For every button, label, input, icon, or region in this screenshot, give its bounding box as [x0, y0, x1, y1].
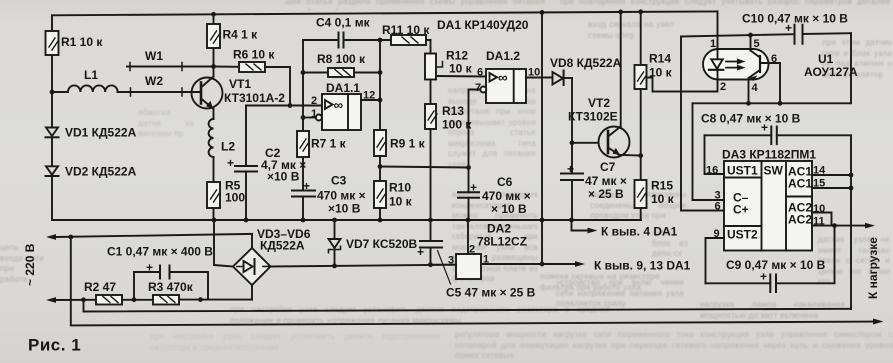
resistor R11	[380, 23, 431, 45]
svg-text:VT1: VT1	[229, 77, 251, 91]
svg-text:6: 6	[715, 201, 721, 213]
svg-text:6: 6	[771, 53, 777, 65]
svg-text:C4 0,1 мк: C4 0,1 мк	[316, 16, 371, 30]
svg-text:470 мк ×: 470 мк ×	[482, 189, 531, 203]
svg-text:12: 12	[363, 90, 375, 102]
svg-text:C3: C3	[331, 174, 347, 188]
wire emitter line to DA1.1 pin2	[246, 103, 322, 108]
wire line1 AC to right column	[84, 300, 852, 312]
svg-text:Рис. 1: Рис. 1	[28, 336, 81, 355]
op-amp DA1.1	[303, 81, 380, 130]
resistor R13	[425, 80, 472, 221]
svg-text:10: 10	[528, 67, 540, 79]
svg-text:5: 5	[754, 38, 760, 50]
svg-text:UST2: UST2	[727, 228, 758, 242]
bleed-through background texture	[285, 0, 545, 10]
svg-text:+: +	[146, 261, 153, 275]
svg-text:R6 10 к: R6 10 к	[233, 48, 275, 62]
svg-text:10 к: 10 к	[389, 195, 413, 209]
resistor R2	[84, 280, 122, 305]
wire AC riser and bottom line to load	[71, 237, 884, 325]
svg-text:SW: SW	[764, 164, 784, 178]
svg-text:R14: R14	[649, 52, 671, 66]
wire right column AC1 riser	[850, 135, 852, 309]
svg-text:R11 10 к: R11 10 к	[382, 23, 430, 37]
trimmer R12	[425, 40, 486, 80]
antenna wire W1	[127, 49, 214, 71]
node collector junction	[211, 64, 216, 69]
svg-text:C10 0,47 мк × 10 В: C10 0,47 мк × 10 В	[742, 12, 848, 26]
capacitor C9	[706, 226, 835, 292]
op-amp DA1.2	[437, 18, 553, 168]
svg-text:C5 47 мк × 25 В: C5 47 мк × 25 В	[446, 286, 536, 300]
svg-text:1: 1	[483, 254, 489, 266]
svg-text:DA1.1: DA1.1	[326, 81, 360, 95]
svg-text:R12: R12	[446, 49, 468, 63]
svg-text:R7 1 к: R7 1 к	[311, 137, 347, 151]
svg-text:К нагрузке: К нагрузке	[866, 237, 880, 299]
antenna wire W2 / base wire	[118, 74, 201, 96]
capacitor C6	[458, 165, 531, 220]
svg-text:L1: L1	[84, 68, 98, 82]
wire divider to pin7/C6	[380, 167, 469, 168]
svg-text:R13: R13	[442, 104, 464, 118]
svg-text:КТ3101А-2: КТ3101А-2	[224, 91, 285, 105]
wire R14 tap to U1 pin2	[647, 78, 718, 92]
wire to pin 4 DA1	[572, 220, 678, 239]
svg-text:4: 4	[752, 82, 759, 94]
capacitor C4	[303, 16, 380, 48]
svg-text:DA3 КР1182ПМ1: DA3 КР1182ПМ1	[722, 148, 816, 162]
diode VD1	[46, 126, 137, 140]
svg-text:R4 1 к: R4 1 к	[223, 28, 259, 42]
svg-text:∞: ∞	[498, 70, 508, 85]
svg-text:R2 47: R2 47	[84, 280, 116, 294]
svg-text:КД522А: КД522А	[260, 239, 305, 253]
svg-text:DA1.2: DA1.2	[486, 49, 520, 63]
wire R2R3 line with arrow	[46, 297, 252, 303]
svg-text:R9 1 к: R9 1 к	[390, 137, 426, 151]
svg-text:78L12CZ: 78L12CZ	[477, 235, 527, 249]
resistor R4	[207, 14, 258, 66]
svg-text:VD1 КД522А: VD1 КД522А	[65, 126, 137, 140]
svg-text:C6: C6	[497, 175, 513, 189]
svg-text:C9 0,47 мк × 10 В: C9 0,47 мк × 10 В	[726, 258, 826, 272]
resistor R9	[374, 130, 426, 156]
svg-text:AC2: AC2	[788, 213, 812, 227]
resistor R15	[635, 156, 675, 220]
wire DA3 pins 14,15	[812, 173, 853, 191]
svg-text:+: +	[227, 156, 234, 170]
resistor R10	[374, 181, 413, 221]
resistor R14	[635, 12, 673, 158]
svg-text:C7: C7	[600, 160, 616, 174]
resistor R8	[303, 52, 380, 77]
figure label	[28, 336, 81, 355]
transistor VT2	[568, 12, 641, 158]
resistor R1	[46, 31, 104, 55]
svg-text:L2: L2	[221, 140, 235, 154]
svg-text:7: 7	[475, 82, 481, 94]
wire R9-R10 junction	[378, 156, 383, 181]
svg-text:C1 0,47 мк × 400 В: C1 0,47 мк × 400 В	[107, 245, 213, 259]
label K load vertical	[866, 237, 880, 299]
svg-text:W1: W1	[145, 49, 163, 63]
inductor L2	[209, 119, 236, 157]
svg-text:100: 100	[225, 191, 245, 205]
svg-text:2: 2	[311, 95, 317, 107]
node top bus junctions	[211, 9, 643, 16]
wire VT2 base	[572, 142, 599, 144]
svg-text:+: +	[417, 245, 424, 259]
svg-text:R10: R10	[389, 181, 411, 195]
svg-text:+: +	[567, 162, 574, 176]
wire left rail	[51, 15, 53, 220]
wire DA3 pin6 riser	[681, 37, 724, 211]
wire to pins 9,13 DA1	[481, 12, 691, 272]
svg-text:10 к: 10 к	[651, 192, 675, 206]
svg-text:47 мк ×: 47 мк ×	[585, 174, 627, 188]
wire VD8 column	[570, 78, 575, 174]
svg-text:U1: U1	[818, 52, 834, 66]
svg-text:+: +	[303, 179, 310, 193]
diode VD2	[46, 165, 137, 179]
resistor R6	[214, 48, 291, 106]
svg-text:1: 1	[710, 38, 716, 50]
wire upper common bus	[52, 218, 641, 223]
resistor R3	[148, 280, 194, 305]
svg-text:VD2 КД522А: VD2 КД522А	[65, 165, 137, 179]
svg-text:∞: ∞	[334, 98, 344, 113]
capacitor C3	[292, 157, 366, 220]
svg-text:К выв. 9, 13 DA1: К выв. 9, 13 DA1	[594, 259, 691, 273]
svg-text:R8 100 к: R8 100 к	[317, 52, 366, 66]
bridge rectifier VD3-VD6	[214, 220, 311, 300]
capacitor C2	[227, 106, 306, 221]
diode VD8	[550, 56, 622, 85]
phase regulator DA3	[706, 148, 826, 251]
svg-text:КТ3102Е: КТ3102Е	[568, 110, 618, 124]
svg-text:АОУ127А: АОУ127А	[804, 65, 858, 79]
svg-text:VT2: VT2	[588, 96, 610, 110]
transistor VT1	[192, 67, 286, 120]
svg-text:+: +	[470, 181, 477, 195]
zener VD7	[329, 218, 418, 266]
svg-text:C8 0,47 мк × 10 В: C8 0,47 мк × 10 В	[701, 112, 801, 126]
svg-text:2: 2	[720, 81, 726, 93]
svg-text:DA2: DA2	[487, 222, 511, 236]
svg-text:W2: W2	[145, 74, 163, 88]
voltage regulator DA2	[431, 220, 528, 279]
svg-text:~ 220 В: ~ 220 В	[23, 243, 37, 286]
capacitor C5	[417, 220, 536, 300]
optocoupler U1	[703, 11, 858, 103]
wire DA3 pin9 riser	[706, 238, 725, 283]
wire R11/R8/pin12 column	[378, 38, 383, 130]
inductor L1	[50, 68, 118, 94]
wire DC+ line	[271, 262, 457, 268]
svg-text:R1 10 к: R1 10 к	[61, 35, 103, 49]
capacitor C10	[681, 12, 851, 44]
wire C4-R7-C3 column	[301, 40, 306, 131]
svg-text:VD7 КС520В: VD7 КС520В	[346, 237, 418, 251]
resistor R7	[297, 131, 347, 157]
svg-text:R3 470к: R3 470к	[148, 280, 194, 294]
svg-text:2: 2	[469, 244, 475, 256]
wire AC line top with ~220V arrow	[23, 234, 252, 286]
svg-text:UST1: UST1	[727, 164, 758, 178]
svg-text:×10 В: ×10 В	[267, 170, 300, 184]
svg-text:C+: C+	[733, 203, 749, 217]
wire top common bus	[52, 11, 717, 15]
svg-text:VD8 КД522А: VD8 КД522А	[550, 56, 622, 70]
svg-text:× 10 В: × 10 В	[491, 202, 527, 216]
wire U1 pins 4,6 line	[693, 33, 852, 200]
svg-text:×10 В: ×10 В	[328, 202, 361, 216]
svg-text:DA1 КР140УД20: DA1 КР140УД20	[437, 18, 529, 32]
svg-text:× 25 В: × 25 В	[588, 187, 624, 201]
capacitor C1	[107, 245, 213, 300]
svg-text:16: 16	[706, 165, 718, 177]
svg-text:R15: R15	[651, 179, 673, 193]
wire DA3 pins 10,11 to load arrow	[812, 213, 875, 229]
capacitor C7	[561, 160, 627, 220]
svg-text:К выв. 4 DA1: К выв. 4 DA1	[601, 225, 678, 239]
svg-text:1: 1	[311, 108, 317, 120]
svg-text:470 мк ×: 470 мк ×	[317, 189, 366, 203]
capacitor C8	[701, 112, 851, 175]
svg-text:AC1: AC1	[788, 177, 812, 191]
svg-text:10 к: 10 к	[449, 62, 473, 76]
svg-text:6: 6	[477, 67, 483, 79]
resistor R5	[207, 157, 245, 220]
